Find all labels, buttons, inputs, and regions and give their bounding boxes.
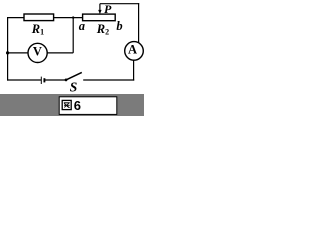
battery cell (41, 77, 44, 84)
caption grey bar (0, 94, 144, 116)
junction node at top wire (72, 16, 74, 18)
wire bottom right segment (83, 79, 134, 81)
ammeter A (125, 42, 144, 61)
wire top-left horizontal (8, 17, 25, 19)
resistor R1 (24, 14, 54, 36)
wire slider to top-right (100, 3, 139, 5)
svg-text:V: V (33, 44, 42, 58)
svg-text:b: b (116, 19, 122, 33)
wire ammeter down to bottom wire (133, 60, 135, 81)
switch S (65, 72, 82, 94)
left rail wire (7, 17, 9, 81)
svg-text:S: S (70, 80, 78, 95)
wire junction to voltmeter (8, 52, 29, 54)
voltmeter V (28, 43, 47, 62)
wire switch to battery (45, 79, 66, 81)
wire R1 to R2 (54, 17, 83, 19)
wire battery to bottom-left corner (7, 79, 41, 81)
wire voltmeter to riser (47, 52, 73, 54)
wire right rail down to ammeter (138, 3, 140, 43)
svg-text:A: A (128, 43, 137, 57)
svg-text:6: 6 (74, 98, 81, 113)
slider wiper arrow (98, 4, 101, 15)
junction node on left rail (6, 51, 9, 54)
rheostat R2 (83, 14, 116, 36)
svg-text:R1: R1 (31, 22, 44, 36)
caption white box (59, 97, 117, 115)
svg-text:a: a (79, 19, 85, 33)
caption glyph tu (figure) (62, 100, 71, 109)
riser wire up to node between R1 and R2 (72, 18, 74, 53)
svg-text:R2: R2 (96, 22, 109, 36)
